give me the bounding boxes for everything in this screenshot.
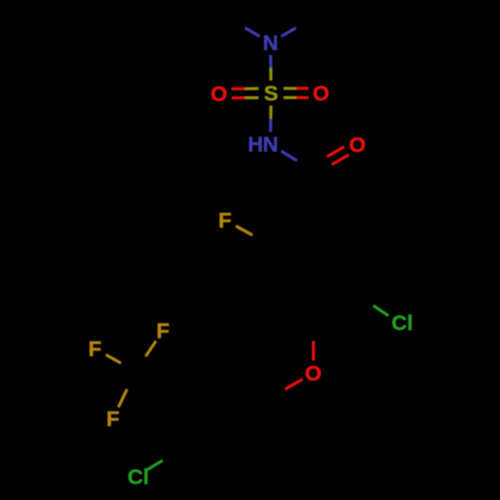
bond N-S <box>269 55 272 81</box>
svg-text:N: N <box>263 31 279 55</box>
svg-text:O: O <box>305 361 322 385</box>
bond CF3-F left <box>106 355 136 372</box>
bond C-Cl aryl 2 <box>147 451 179 470</box>
bond ring2 C3-C4 <box>174 399 183 451</box>
svg-text:F: F <box>106 407 119 431</box>
svg-text:O: O <box>313 81 330 105</box>
svg-text:S: S <box>264 81 278 105</box>
svg-text:F: F <box>218 208 231 232</box>
bond ring2 C2-C3 <box>178 373 223 399</box>
bond ring1 C5-C6 <box>357 244 360 296</box>
bond C-F aryl <box>236 226 269 244</box>
svg-text:F: F <box>156 319 169 343</box>
bond S-NH <box>269 106 272 132</box>
bond ring1 C2-C3 <box>264 244 273 296</box>
bond ring1 C1-C2 <box>269 218 314 244</box>
bond ring1 C4-C5 <box>311 292 361 326</box>
svg-text:O: O <box>349 133 366 157</box>
bond S=O right <box>284 88 309 97</box>
bond ring2 C1-C2 <box>221 369 271 403</box>
bond C=O carbonyl <box>310 147 349 175</box>
svg-text:H: H <box>248 133 264 157</box>
bond C-CF3 <box>136 372 179 400</box>
bond CF3-F bottom <box>118 372 135 408</box>
bond ring1 C6-C1 <box>311 214 361 248</box>
bond C(=O)-ring1 <box>313 171 314 219</box>
bond ring1 C3-C4 <box>269 296 314 322</box>
bond C-O ether upper <box>312 322 315 361</box>
bond NH-C(=O) <box>281 151 312 171</box>
bond CF3-F top <box>136 341 157 372</box>
bond O-C ether lower <box>268 379 302 399</box>
svg-text:Cl: Cl <box>391 311 413 335</box>
bond ring2 C4-C5 <box>178 451 223 477</box>
bond C-Cl aryl <box>359 296 389 316</box>
svg-text:O: O <box>211 82 228 106</box>
svg-text:Cl: Cl <box>127 465 149 489</box>
svg-text:F: F <box>88 337 101 361</box>
bond S=O left <box>232 89 259 99</box>
bond N-CH3 left <box>231 20 260 37</box>
bond N-CH3 right <box>281 20 310 37</box>
bond ring2 C6-C1 <box>267 399 270 451</box>
bond ring2 C5-C6 <box>221 447 271 481</box>
svg-text:N: N <box>263 133 279 157</box>
